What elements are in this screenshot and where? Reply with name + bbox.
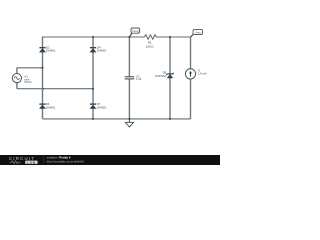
label R1: [145, 40, 154, 48]
svg-text:Vreg: Vreg: [195, 31, 201, 35]
resistor R1 zigzag: [144, 35, 156, 39]
label V1 value: [24, 74, 32, 84]
wire V1 bottom to right branch: [17, 88, 93, 90]
wire capacitor branch lower: [128, 79, 130, 119]
wire current source branch lower: [190, 79, 192, 119]
node top rail / zener branch: [169, 36, 171, 38]
wire V1 bottom lead: [16, 83, 18, 89]
footer bar: [0, 155, 220, 165]
node top rail / right branch: [92, 36, 94, 38]
diode D4: [90, 48, 97, 53]
svg-text:1N4001: 1N4001: [46, 49, 56, 53]
flag Vreg: [191, 29, 203, 37]
current source I1: [185, 69, 195, 79]
wire right bridge branch: [92, 37, 94, 119]
svg-text:1N4001: 1N4001: [46, 105, 56, 109]
label D8: [155, 71, 167, 79]
svg-text:100 Ω: 100 Ω: [145, 45, 154, 49]
wire V1 top lead: [16, 68, 18, 74]
node V1+ / left branch: [42, 67, 44, 69]
zener diode D8: [166, 73, 174, 79]
label D4: [97, 45, 107, 52]
svg-text:1.6 mA: 1.6 mA: [198, 72, 207, 76]
footer separator: [43, 157, 45, 164]
svg-text:1N4001: 1N4001: [97, 105, 107, 109]
diode D2: [39, 48, 46, 53]
diode D6: [39, 104, 46, 109]
svg-text:1 µF: 1 µF: [136, 77, 142, 81]
node bottom rail / cap branch: [128, 118, 130, 120]
wire top rail right segment: [156, 36, 190, 38]
svg-text:http://circuitlab.com/c/ab64z5: http://circuitlab.com/c/ab64z5: [47, 159, 85, 163]
svg-text:1N4001: 1N4001: [97, 49, 107, 53]
label D6: [46, 102, 56, 109]
flag Vunreg: [129, 28, 139, 37]
wire zener branch: [169, 37, 171, 119]
footer logo LAB box: [25, 161, 37, 164]
label C2: [136, 75, 142, 82]
wire V1 top to left branch: [17, 67, 43, 69]
diode D7: [90, 104, 97, 109]
wire bottom rail: [43, 118, 191, 120]
ground: [125, 119, 133, 127]
svg-text:1N4734A: 1N4734A: [155, 74, 167, 78]
node top rail / cap branch: [128, 36, 130, 38]
node bottom rail / zener branch: [169, 118, 171, 120]
wire capacitor branch upper: [128, 37, 130, 76]
junction node dots: [42, 36, 172, 120]
footer logo waveform: [10, 161, 21, 164]
wire endpoint mark at crossing: [43, 88, 44, 89]
svg-text:LAB: LAB: [27, 160, 36, 164]
svg-text:Vunreg: Vunreg: [132, 30, 140, 33]
wire current source branch upper: [190, 37, 192, 69]
svg-text:60 Hz: 60 Hz: [24, 80, 32, 84]
capacitor C2: [125, 77, 135, 79]
label I1: [198, 69, 207, 76]
label D2: [46, 45, 56, 52]
wire left bridge branch: [42, 37, 44, 119]
canvas background: [0, 0, 220, 165]
voltage source V1: [12, 74, 21, 83]
node bottom rail / right branch: [92, 118, 94, 120]
node V1- / right branch: [92, 88, 94, 90]
label D7: [97, 102, 107, 109]
wire top rail left segment: [43, 36, 145, 38]
